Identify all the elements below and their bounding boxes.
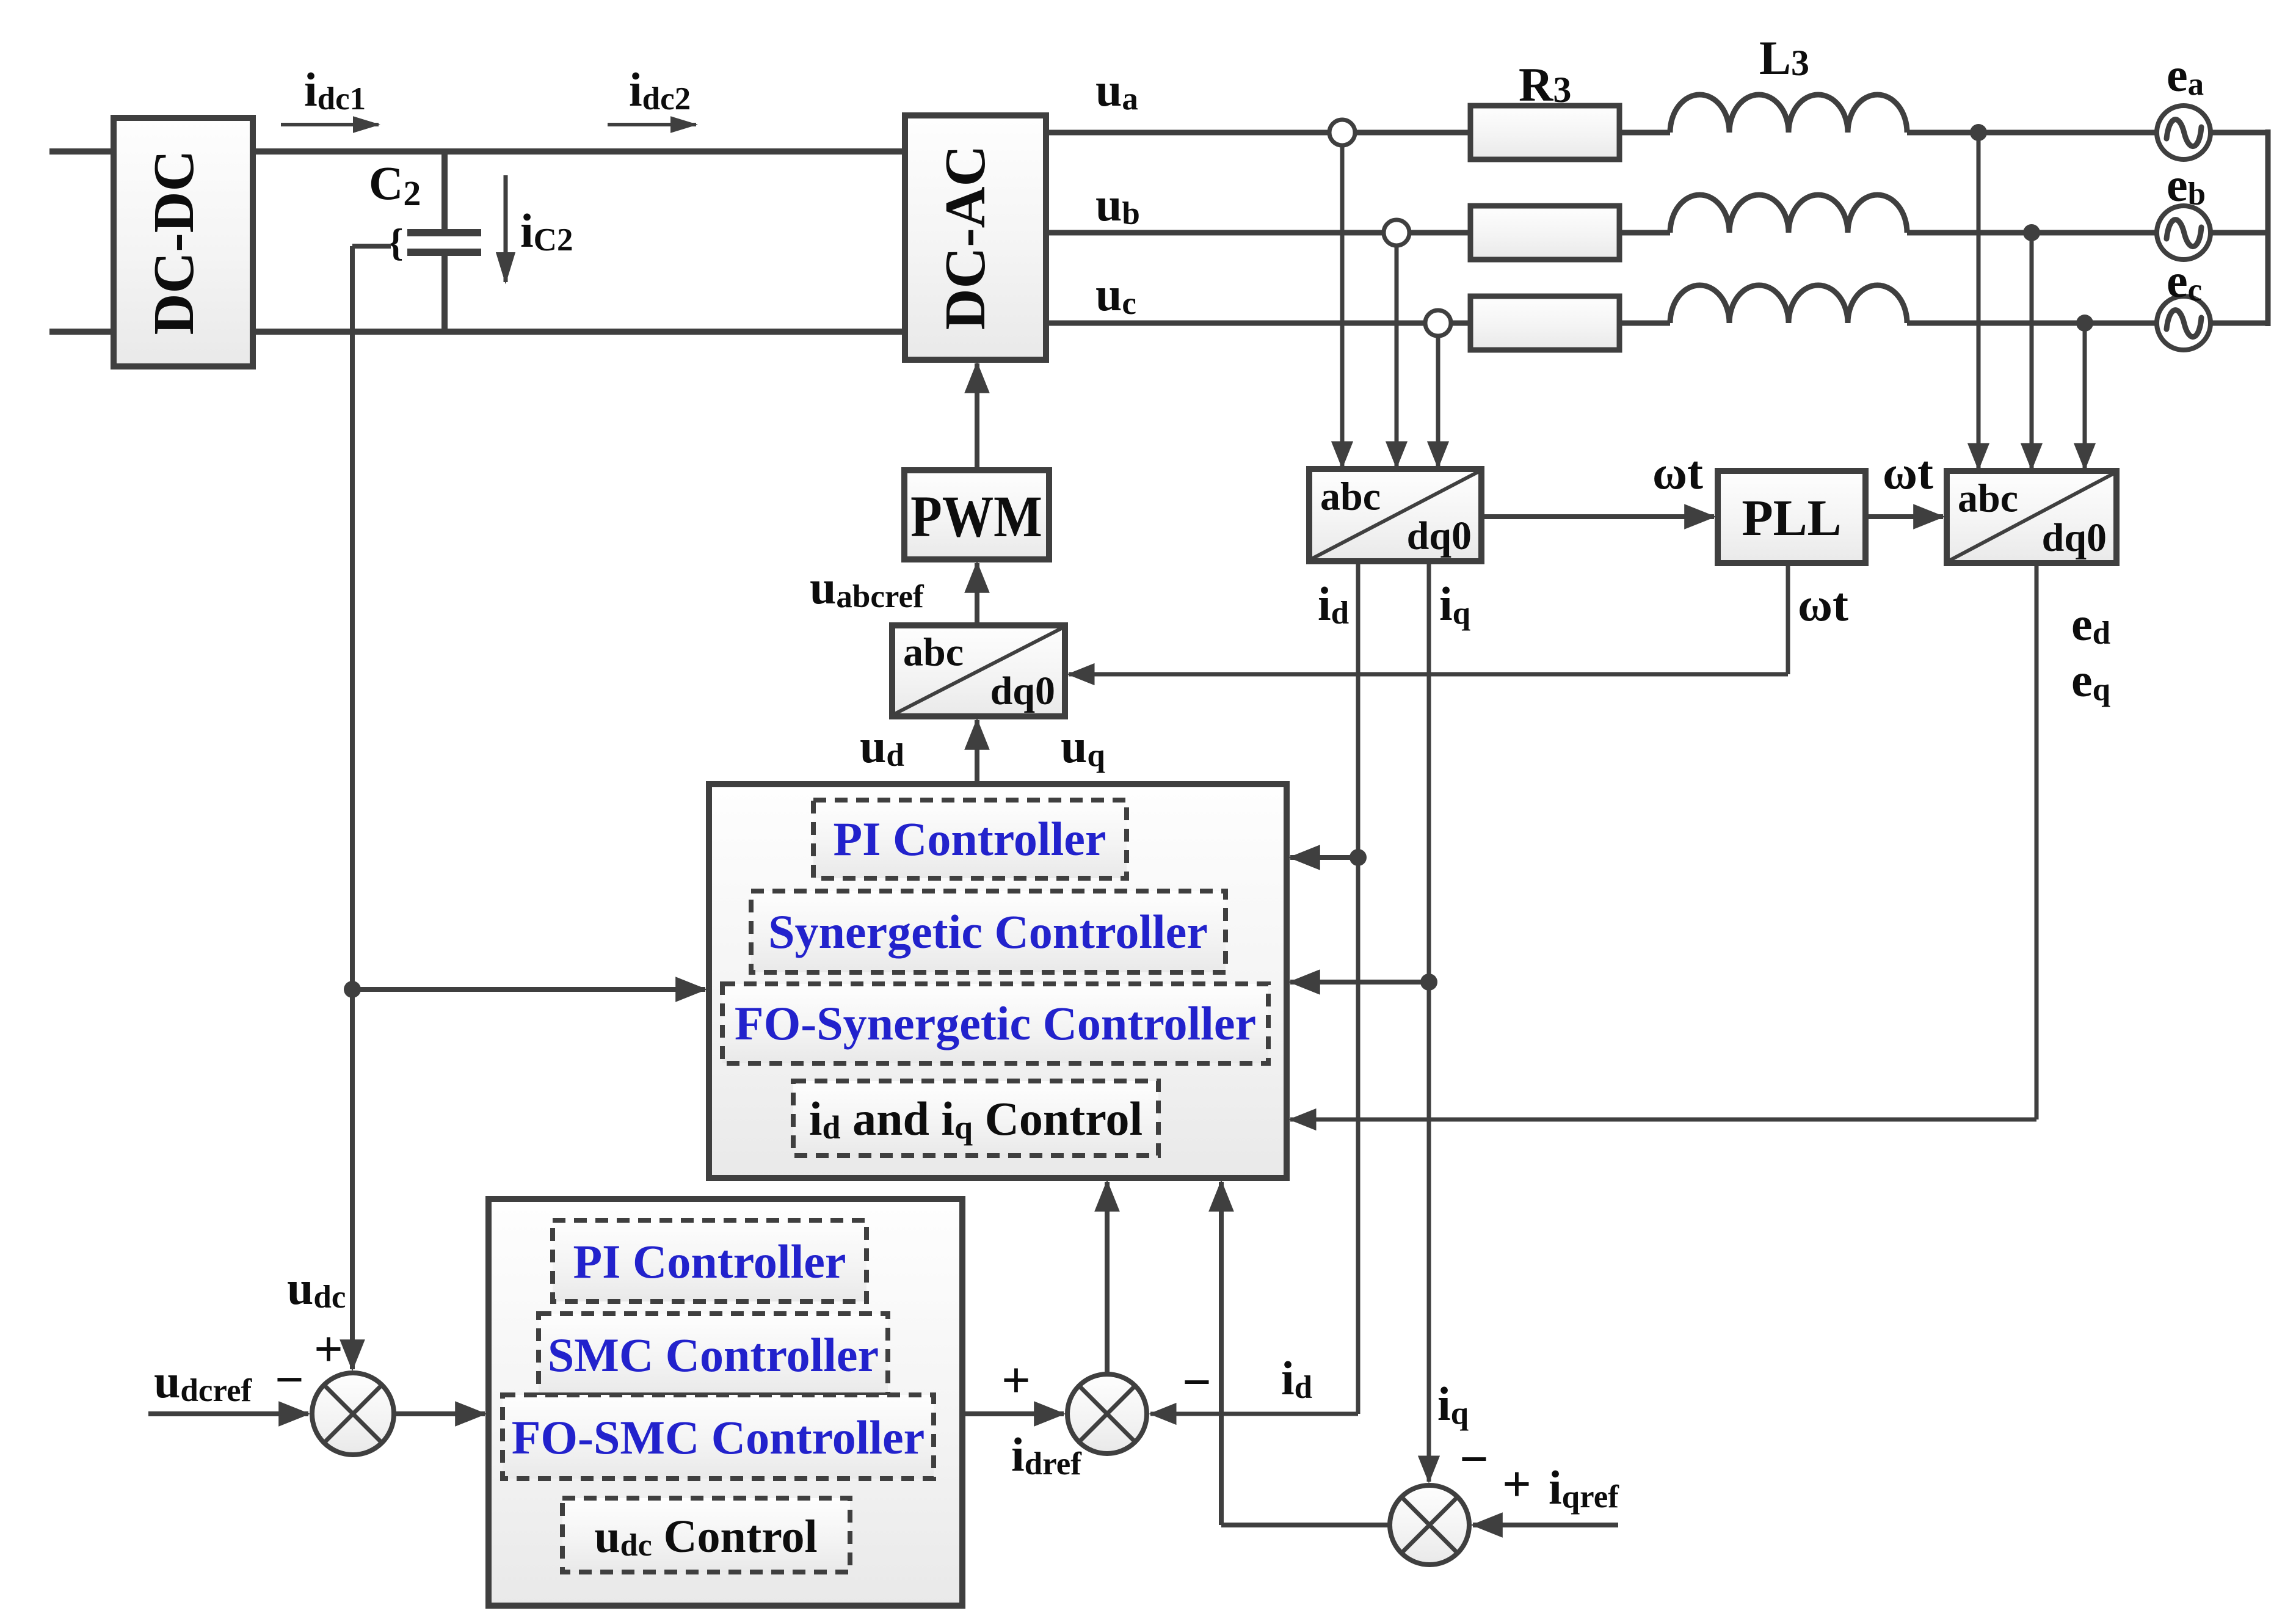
svg-text:ωt: ωt (1883, 446, 1933, 499)
wire SMC box to sum2 (962, 1411, 1064, 1416)
svg-text:+: + (1001, 1352, 1031, 1409)
current arrow idc2 (608, 63, 696, 125)
node udc branch (344, 981, 361, 998)
wire udcref input (148, 1411, 308, 1416)
svg-text:{: { (388, 220, 403, 264)
wire drop ua to abc-dq0 (1340, 145, 1345, 467)
wire id vertical (1150, 561, 1358, 1414)
wire ud uq arrow (975, 720, 979, 784)
resistor R3 phase c (1470, 296, 1619, 350)
wire drop ub to abc-dq0 (1395, 246, 1399, 467)
dashed box PI controller (top) (813, 800, 1127, 878)
wire phase c after inductor (1907, 321, 2268, 326)
wire drop eb to abc-dq0 (2030, 233, 2034, 469)
wire drop ec to abc-dq0 (2083, 323, 2087, 469)
dashed box SMC controller (539, 1314, 888, 1395)
wire phase a after inductor (1907, 130, 2268, 136)
wire PLL to abc-dq0 grid (1866, 514, 1943, 519)
wire iq vertical (1427, 561, 1431, 1482)
converter DC-AC (905, 115, 1046, 360)
svg-text:abc: abc (903, 630, 964, 675)
svg-text:PLL: PLL (1742, 490, 1841, 547)
wire dc input stub top (49, 148, 114, 155)
wire sum1 to SMC box (394, 1411, 485, 1416)
svg-text:−: − (275, 1352, 304, 1408)
tap circle phase c (1425, 310, 1451, 336)
current arrow iC2 (506, 175, 573, 282)
svg-text:ωt: ωt (1652, 446, 1703, 499)
wire PWM to DC-AC (975, 363, 979, 470)
controller box id iq control (709, 784, 1287, 1178)
ac source eb (2157, 206, 2211, 260)
current arrow idc1 (281, 63, 379, 125)
wire ed eq output (1290, 563, 2036, 1119)
svg-text:Synergetic Controller: Synergetic Controller (768, 905, 1208, 958)
wire wt feedback (1069, 563, 1788, 674)
svg-text:dq0: dq0 (990, 669, 1055, 713)
svg-text:DC-DC: DC-DC (142, 150, 206, 335)
node phase c (2076, 315, 2093, 332)
resistor R3 phase b (1470, 206, 1619, 260)
wire sum3 to controller (1221, 1182, 1390, 1525)
svg-text:PI Controller: PI Controller (573, 1235, 846, 1288)
capacitor C2 (407, 151, 481, 332)
svg-text:id and iq Control: id and iq Control (809, 1092, 1143, 1146)
wire uabcref arrow (975, 563, 979, 625)
transform abc-dq0 inverse (892, 625, 1065, 716)
dashed box PI controller (udc) (553, 1220, 866, 1301)
wire udc sense vertical (352, 246, 391, 1369)
svg-text:dq0: dq0 (2042, 515, 2107, 560)
wire drop uc to abc-dq0 (1436, 336, 1440, 467)
block PLL (1718, 471, 1866, 563)
ac source ea (2157, 106, 2211, 159)
converter DC-DC (114, 118, 253, 366)
dashed box synergetic controller (751, 891, 1226, 972)
transform abc-dq0 currents (1309, 469, 1481, 561)
svg-text:FO-Synergetic Controller: FO-Synergetic Controller (735, 997, 1256, 1050)
summing junction idref (1067, 1374, 1147, 1454)
wire udc into controller (352, 987, 705, 992)
wire phase a (ua) (1046, 130, 1670, 136)
wire right grid bus (2265, 129, 2271, 326)
node iq to controller (1420, 974, 1437, 991)
svg-text:+: + (1502, 1456, 1531, 1513)
wire phase c (uc) (1046, 321, 1670, 326)
svg-text:ωt: ωt (1798, 578, 1848, 631)
tap circle phase b (1384, 220, 1409, 246)
wire dc input stub bottom (49, 329, 114, 335)
wire phase b (ub) (1046, 230, 1670, 236)
svg-text:DC-AC: DC-AC (934, 145, 997, 330)
svg-text:PWM: PWM (910, 484, 1042, 549)
inductor L3 phase b (1670, 195, 1907, 233)
svg-text:+: + (314, 1321, 343, 1378)
transform abc-dq0 grid voltages (1947, 471, 2116, 563)
dashed box FO-SMC controller (503, 1395, 934, 1479)
svg-text:PI Controller: PI Controller (834, 812, 1106, 865)
block PWM (904, 470, 1049, 559)
wire drop ea to abc-dq0 (1977, 133, 1981, 469)
wire iq into controller (1290, 980, 1429, 985)
node phase b (2023, 224, 2040, 241)
svg-text:abc: abc (1958, 476, 2018, 520)
ac source ec (2157, 296, 2211, 350)
wire id into controller (1290, 855, 1358, 860)
svg-text:−: − (1182, 1354, 1212, 1411)
node phase a (1970, 124, 1987, 141)
wire bottom dc bus (253, 329, 905, 335)
svg-text:−: − (1459, 1431, 1489, 1488)
wire to PLL (1481, 514, 1714, 519)
dashed box FO-synergetic controller (722, 984, 1268, 1063)
node id to controller (1350, 849, 1367, 866)
svg-text:FO-SMC Controller: FO-SMC Controller (512, 1411, 925, 1464)
dashed box udc control (562, 1498, 850, 1572)
inductor L3 phase a (1670, 95, 1907, 133)
summing junction iqref (1390, 1485, 1469, 1565)
controller box udc control (489, 1199, 962, 1606)
wire iqref input (1473, 1523, 1618, 1527)
wire top dc bus (253, 148, 905, 155)
tap circle phase a (1329, 120, 1355, 145)
dashed box id and iq control (793, 1081, 1158, 1156)
summing junction udc (312, 1373, 394, 1455)
svg-text:SMC Controller: SMC Controller (548, 1328, 879, 1381)
svg-text:abc: abc (1320, 474, 1381, 519)
wire phase b after inductor (1907, 230, 2268, 236)
inductor L3 phase c (1670, 285, 1907, 323)
resistor R3 phase a (1470, 106, 1619, 159)
wire sum2 to controller (1105, 1182, 1110, 1374)
svg-text:dq0: dq0 (1407, 514, 1472, 558)
